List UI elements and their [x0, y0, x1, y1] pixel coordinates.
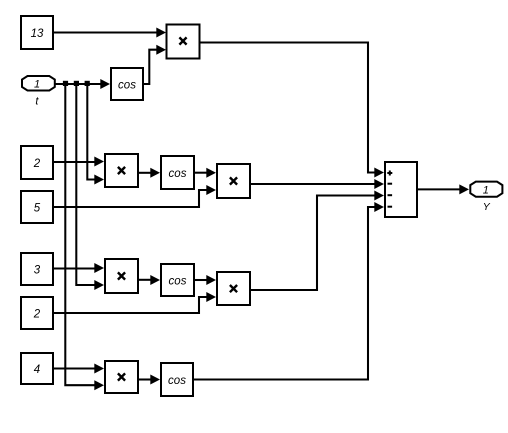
svg-text:2: 2: [33, 158, 41, 170]
constant block 3: [21, 253, 53, 285]
constant block 13: [21, 16, 53, 49]
svg-text:5: 5: [34, 203, 41, 215]
wire cos C1 to product P1 input2: [144, 45, 166, 84]
svg-text:cos: cos: [168, 375, 186, 387]
constant block 5: [21, 191, 53, 223]
svg-text:3: 3: [34, 265, 41, 277]
svg-text:1: 1: [483, 185, 489, 197]
wire cos C2 to product P3 input1: [195, 168, 216, 178]
svg-text:cos: cos: [169, 168, 187, 180]
wire inport t to cos C1 with branch junctions: [55, 79, 110, 89]
constant block 2b: [21, 297, 53, 329]
wire product P5 to sum input3: [251, 191, 384, 291]
wire t-branch to product P6 input2: [65, 84, 104, 390]
cos block C2: [161, 156, 194, 189]
cos block C4: [161, 363, 193, 396]
svg-text:4: 4: [34, 364, 40, 376]
product block P4: [105, 259, 138, 293]
wire product P4 to cos C3: [139, 275, 160, 285]
wire product P6 to cos C4: [139, 375, 160, 385]
wire const5 to product P3 input2: [54, 185, 216, 207]
product block P1: [167, 25, 200, 59]
wire product P1 to sum input1: [200, 43, 384, 178]
product block P6: [105, 361, 138, 393]
wire const3 to product P4 input1: [54, 263, 104, 273]
wire const2 to product P2 input1: [54, 157, 104, 167]
product block P2: [105, 154, 138, 187]
wire cos C3 to product P5 input1: [195, 275, 216, 285]
svg-text:cos: cos: [118, 79, 136, 91]
wire product P3 to sum input2: [251, 179, 384, 189]
cos block C3: [161, 264, 194, 296]
wire t-branch to product P4 input2: [76, 84, 104, 290]
wire const2b to product P5 input2: [54, 292, 216, 313]
constant block 4: [21, 353, 53, 384]
inport block 1 (t): [22, 76, 55, 91]
svg-text:13: 13: [31, 28, 44, 40]
wire sum to outport Y: [418, 184, 469, 194]
constant block 2: [21, 146, 53, 179]
cos block C1: [111, 68, 143, 100]
label t: [35, 96, 39, 108]
svg-text:2: 2: [33, 309, 41, 321]
wire t-branch to product P2 input2: [87, 84, 104, 185]
product block P5: [217, 272, 250, 305]
svg-text:Y: Y: [483, 201, 491, 213]
product block P3: [217, 164, 250, 198]
wire const4 to product P6 input1: [54, 364, 104, 374]
sum block S1: [385, 162, 417, 217]
wire product P2 to cos C2: [139, 168, 160, 178]
label Y: [483, 201, 491, 213]
svg-text:1: 1: [34, 78, 40, 90]
wire cos C4 to sum input4: [194, 202, 384, 380]
outport block 1 (Y): [470, 182, 502, 197]
wire const13 to product P1 input1: [54, 28, 166, 38]
svg-text:cos: cos: [169, 275, 187, 287]
